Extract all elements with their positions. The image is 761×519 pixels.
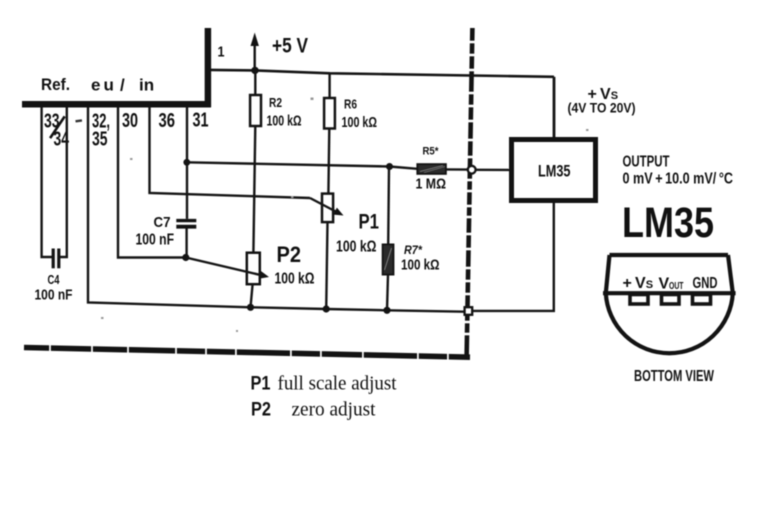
wire R2 to P2	[253, 125, 255, 252]
resistor R6	[324, 98, 335, 129]
wire LM35 GND (bottom)	[472, 203, 553, 311]
svg-text:R6: R6	[344, 97, 357, 112]
svg-text:LM35: LM35	[622, 199, 714, 247]
package pin 2 (Vout) pad	[662, 295, 680, 305]
junction pin31 / feedback row	[183, 159, 190, 166]
potentiometer P2	[247, 253, 260, 285]
package pin 3 (GND) pad	[693, 295, 711, 305]
svg-text:P1: P1	[359, 211, 380, 234]
wire pin 32/35 down to ground rail	[88, 107, 464, 312]
junction P2/ground	[247, 304, 254, 311]
resistor R2	[254, 70, 256, 97]
svg-text:36: 36	[159, 110, 176, 132]
svg-text:100 kΩ: 100 kΩ	[275, 271, 315, 288]
svg-text:+5 V: +5 V	[272, 35, 308, 58]
wire pin 30 down to C7 bottom node	[118, 107, 183, 258]
wire R7 top	[387, 167, 390, 245]
svg-text:e: e	[91, 76, 100, 95]
svg-text:31: 31	[193, 110, 209, 132]
wire pin 33 down to C4	[42, 107, 52, 257]
svg-text:0 mV + 10.0 mV/ °C: 0 mV + 10.0 mV/ °C	[623, 171, 734, 188]
svg-text:BOTTOM VIEW: BOTTOM VIEW	[634, 368, 715, 385]
wire pin 34 down to C4	[60, 107, 67, 257]
wire +5V rail (pin 1 to LM35 corner)	[211, 70, 554, 77]
wire R6 top tap	[328, 73, 330, 99]
stray scan dash	[75, 119, 82, 122]
svg-text:/: /	[120, 76, 125, 95]
svg-text:GND: GND	[693, 275, 718, 292]
terminal: open circle on boundary (Vout)	[468, 166, 476, 174]
capacitor C4	[53, 249, 59, 269]
power +5V arrow	[253, 40, 255, 70]
wire circle to LM35 Vout	[475, 169, 509, 171]
arrowhead P2 wiper	[259, 271, 269, 279]
svg-text:(4V TO 20V): (4V TO 20V)	[568, 101, 636, 116]
wire LM35 +Vs (top)	[553, 77, 556, 139]
junction R7/ground	[383, 307, 390, 314]
svg-text:u: u	[104, 76, 114, 95]
svg-text:100 kΩ: 100 kΩ	[401, 258, 440, 274]
package pin 1 (+Vs) pad	[630, 295, 648, 305]
svg-text:P1: P1	[251, 374, 271, 395]
slash between 33 and 34	[50, 116, 65, 138]
package TO-92 bottom view outline	[603, 255, 736, 353]
svg-text:Ref.: Ref.	[41, 75, 70, 94]
svg-text:LM35: LM35	[538, 162, 571, 181]
svg-text:35: 35	[92, 129, 108, 151]
svg-text:OUT: OUT	[669, 280, 684, 292]
svg-text:C4: C4	[48, 272, 61, 287]
wire P1 wiper diagonal	[310, 198, 340, 214]
wire P2 to ground rail	[251, 284, 253, 307]
svg-text:OUTPUT: OUTPUT	[623, 154, 670, 171]
svg-text:P2: P2	[251, 400, 271, 421]
resistor R7 (filled)	[383, 244, 394, 274]
svg-text:full scale adjust: full scale adjust	[278, 373, 397, 395]
wire pin 36 toward P1 wiper	[150, 107, 311, 198]
svg-text:1: 1	[218, 44, 225, 61]
svg-text:100 kΩ: 100 kΩ	[267, 114, 302, 130]
svg-text:R5*: R5*	[423, 146, 440, 158]
wire P2 wiper (from C7 node)	[186, 258, 266, 277]
wire R6 to P1	[327, 128, 330, 194]
svg-text:C7: C7	[154, 214, 171, 231]
svg-text:P2: P2	[277, 242, 302, 267]
boundary dashed bottom line	[24, 344, 470, 361]
wire P1 to ground rail	[326, 222, 327, 309]
boundary dashed vertical line	[464, 28, 475, 358]
junction C7 bottom node	[182, 254, 189, 261]
svg-text:V: V	[659, 276, 670, 293]
wire feedback row (pin31 node to R5)	[187, 162, 417, 169]
arrowhead P1 wiper	[333, 208, 343, 216]
svg-text:100 nF: 100 nF	[136, 232, 175, 249]
svg-text:R7*: R7*	[404, 243, 423, 257]
wire R5 to boundary circle	[446, 168, 468, 171]
svg-text:zero adjust: zero adjust	[292, 399, 376, 421]
potentiometer P1	[322, 194, 333, 223]
capacitor C7	[176, 221, 196, 227]
IC U1 LM35	[512, 140, 596, 201]
terminal: open square on boundary (ground)	[465, 307, 473, 315]
svg-text:100 kΩ: 100 kΩ	[336, 239, 377, 256]
svg-text:in: in	[139, 76, 154, 95]
resistor R5 (filled)	[417, 164, 446, 174]
wire pin 31 down through C7	[186, 107, 188, 219]
junction P1/ground	[323, 305, 330, 312]
svg-text:100 kΩ: 100 kΩ	[342, 115, 378, 131]
wire R7 to ground rail	[387, 275, 388, 311]
svg-text:R2: R2	[269, 95, 282, 110]
IC module outline (thick corner, top-left)	[22, 28, 211, 107]
junction +5V node	[251, 67, 258, 74]
svg-text:100 nF: 100 nF	[35, 288, 73, 304]
svg-text:1 MΩ: 1 MΩ	[416, 177, 447, 193]
svg-text:30: 30	[122, 110, 138, 132]
scan speckles	[101, 98, 589, 333]
junction R7 top	[386, 163, 393, 170]
